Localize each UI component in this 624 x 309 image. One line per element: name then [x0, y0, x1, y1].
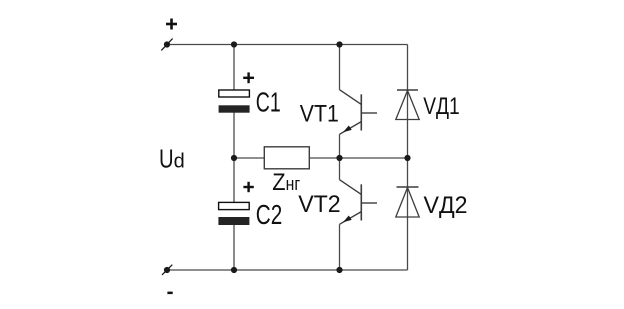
wire VT1 emitter lead	[339, 134, 341, 158]
label - (negative terminal)	[167, 292, 172, 295]
node top rail / C1	[231, 41, 237, 47]
svg-text:Zнг: Zнг	[272, 169, 300, 196]
wire VT2 emitter lead	[339, 224, 341, 270]
capacitor C1	[219, 90, 250, 113]
wire top rail	[167, 44, 408, 46]
node bottom rail / C2	[231, 267, 237, 273]
svg-text:VT2: VT2	[298, 191, 341, 218]
wire bottom rail	[167, 269, 408, 271]
terminal positive input	[161, 39, 172, 51]
wire C2 branch upper	[233, 158, 235, 203]
node mid rail / diode leg	[404, 155, 410, 161]
diode VD2	[396, 187, 419, 217]
node mid rail / C divider	[231, 155, 237, 161]
wire VT2 collector lead	[339, 158, 341, 180]
node bottom rail / VT2 emitter	[336, 267, 342, 273]
transistor VT2	[340, 180, 378, 225]
wire C1 branch lower	[233, 113, 235, 159]
label + of C2	[243, 182, 253, 192]
svg-text:VД1: VД1	[423, 93, 460, 120]
node top rail / VT1 collector	[336, 41, 342, 47]
label + of C1	[243, 72, 254, 83]
label + (positive terminal)	[166, 19, 177, 30]
resistor Zng load box	[264, 147, 309, 169]
transistor VT1	[340, 90, 378, 135]
svg-text:VД2: VД2	[424, 192, 468, 219]
svg-text:C1: C1	[256, 86, 281, 117]
node mid rail / VT emitter-collector	[336, 155, 342, 161]
wire C2 branch lower	[233, 225, 235, 270]
diode VD1	[396, 90, 419, 120]
terminal negative input	[162, 265, 172, 275]
svg-text:C2: C2	[256, 199, 282, 230]
capacitor C2	[218, 202, 249, 225]
wire C1 branch upper	[233, 45, 235, 91]
wire mid rail	[234, 157, 408, 159]
wire VT1 collector lead	[339, 45, 341, 90]
wire right branch (diode leg)	[407, 45, 409, 271]
svg-text:VT1: VT1	[300, 100, 339, 127]
